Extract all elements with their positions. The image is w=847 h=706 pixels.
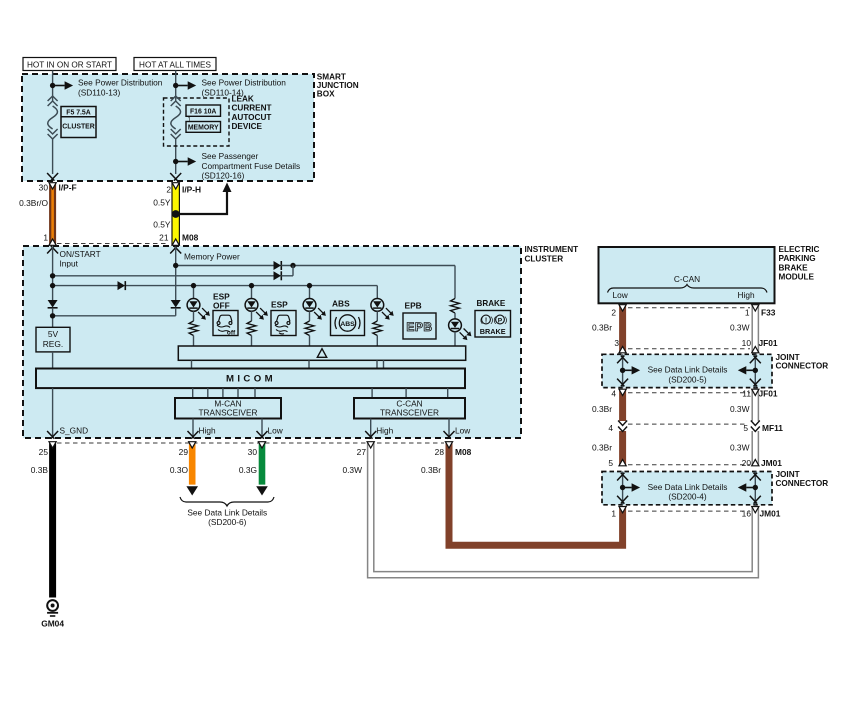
pin arrow out of cluster: [365, 431, 376, 439]
svg-text:CONNECTOR: CONNECTOR: [776, 479, 829, 488]
svg-text:High: High: [199, 426, 216, 436]
label MF11: [762, 423, 783, 433]
svg-text:See Power Distribution: See Power Distribution: [78, 77, 163, 87]
icon EPB: [403, 313, 436, 339]
svg-text:TRANSCEIVER: TRANSCEIVER: [380, 408, 439, 418]
label F33: [761, 308, 776, 318]
svg-text:30: 30: [39, 182, 49, 192]
svg-text:EPB: EPB: [406, 320, 432, 334]
svg-text:Low: Low: [613, 290, 629, 300]
wire resistor to LED BRAKE: [454, 313, 456, 319]
svg-text:30: 30: [248, 447, 258, 457]
joint box1 left arrow: [623, 366, 641, 374]
pin 1: [43, 232, 48, 242]
svg-text:OFF: OFF: [213, 301, 230, 311]
svg-text:BRAKE: BRAKE: [480, 327, 506, 336]
pin 20 JM01: [742, 458, 752, 468]
wire Memory vertical: [175, 247, 177, 301]
svg-text:0.5Y: 0.5Y: [153, 197, 171, 207]
resistor BRAKE: [451, 299, 460, 314]
label S_GND: [60, 426, 89, 436]
wires micom to c-can transceiver: [372, 388, 448, 398]
icon ABS: [331, 311, 365, 336]
label SMART JUNCTION BOX: [317, 72, 359, 98]
pin arrow out of cluster: [257, 431, 268, 439]
svg-text:Compartment Fuse Details: Compartment Fuse Details: [202, 161, 301, 171]
label JF01 lower: [759, 388, 778, 398]
svg-text:Memory Power: Memory Power: [184, 252, 240, 262]
wire 0.3O stub: [189, 442, 196, 485]
indicator LED ESP: [245, 299, 268, 320]
label ABS: [332, 299, 350, 309]
svg-text:1: 1: [611, 509, 616, 519]
joint box1 right arrow: [738, 366, 756, 374]
svg-text:1: 1: [43, 232, 48, 242]
wires bar to micom: [192, 360, 384, 368]
svg-text:5: 5: [743, 423, 748, 433]
node passenger fuse details: [173, 157, 196, 165]
wire 0.3Br/O: [49, 183, 56, 246]
connector dash JF01 bottom: [628, 392, 750, 394]
svg-text:CLUSTER: CLUSTER: [62, 124, 95, 131]
pin 5 JM01: [608, 458, 613, 468]
label 0.3Br cluster: [421, 465, 441, 475]
svg-text:ABS: ABS: [340, 321, 355, 328]
wire c-can high out: [370, 419, 372, 438]
resistor ABS: [305, 321, 314, 336]
svg-text:HOT IN ON OR START: HOT IN ON OR START: [27, 60, 112, 69]
label High epb: [738, 290, 755, 300]
diode Memory to regulator: [171, 300, 181, 308]
resistor EPB: [373, 321, 382, 336]
svg-text:PARKING: PARKING: [779, 254, 816, 263]
svg-text:HOT AT ALL TIMES: HOT AT ALL TIMES: [139, 60, 211, 69]
wire 0.3W epb to jf01: [752, 305, 759, 354]
diode on/start feed: [274, 271, 282, 280]
connector dash F33: [628, 307, 750, 309]
wire LED to resistor EPB: [376, 311, 378, 321]
label ESP OFF: [213, 291, 230, 310]
label High c-can: [376, 426, 393, 436]
arrow end green: [256, 486, 268, 495]
svg-text:See Data Link Details: See Data Link Details: [648, 365, 728, 375]
wire LED to resistor ESP: [251, 311, 253, 321]
svg-text:MODULE: MODULE: [779, 273, 815, 282]
svg-text:F16 10A: F16 10A: [190, 109, 216, 116]
svg-text:C-CAN: C-CAN: [674, 274, 700, 284]
svg-text:0.3Br: 0.3Br: [421, 465, 441, 475]
svg-text:0.3G: 0.3G: [239, 465, 257, 475]
joint box2 left arrow: [623, 483, 641, 491]
svg-text:(SD200-6): (SD200-6): [208, 517, 247, 527]
svg-text:(SD200-4): (SD200-4): [668, 492, 707, 502]
wire ON/START vertical: [52, 247, 54, 301]
svg-text:Low: Low: [455, 426, 471, 436]
wire right power feed: [175, 71, 177, 175]
svg-text:28: 28: [435, 447, 445, 457]
label see power distribution SD110-14: [202, 77, 287, 97]
joint box1 right wire: [750, 354, 761, 387]
wire 0.5Y: [172, 183, 179, 246]
label see data link details SD200-6: [187, 507, 267, 527]
svg-text:5: 5: [608, 458, 613, 468]
svg-text:BOX: BOX: [317, 89, 335, 98]
joint box2 left wire: [617, 472, 628, 505]
label LEAK CURRENT AUTOCUT DEVICE: [232, 95, 272, 132]
svg-text:JM01: JM01: [761, 458, 782, 468]
connector dash MF11: [628, 423, 745, 425]
brace data link: [180, 497, 274, 506]
svg-text:0.3W: 0.3W: [730, 443, 750, 453]
pin arrow out of cluster: [444, 431, 455, 439]
wire LED to resistor ESPOFF: [193, 311, 195, 321]
svg-text:DEVICE: DEVICE: [232, 122, 263, 131]
svg-text:4: 4: [608, 423, 613, 433]
svg-text:ESP: ESP: [271, 300, 288, 310]
svg-text:EPB: EPB: [405, 301, 422, 311]
svg-text:21: 21: [159, 232, 169, 242]
pin 2 I/P-H: [166, 173, 201, 194]
node power distribution right: [173, 81, 196, 89]
svg-text:P: P: [498, 317, 503, 324]
wire diode2 out: [281, 275, 293, 277]
wire c-can low out: [448, 419, 450, 438]
svg-text:F33: F33: [761, 308, 776, 318]
svg-text:MF11: MF11: [762, 423, 783, 433]
svg-text:Input: Input: [60, 259, 79, 269]
regulator 5V REG box: [36, 327, 70, 352]
svg-text:CONNECTOR: CONNECTOR: [776, 362, 829, 371]
label 0.3W seg3: [730, 443, 750, 453]
svg-text:See Data Link Details: See Data Link Details: [187, 507, 267, 517]
svg-text:TRANSCEIVER: TRANSCEIVER: [198, 408, 257, 418]
svg-text:(SD200-5): (SD200-5): [668, 375, 707, 385]
svg-text:20: 20: [742, 458, 752, 468]
label Low c-can: [455, 426, 471, 436]
pin 10 JF01: [742, 338, 752, 348]
wire LED BRAKE to bar: [454, 332, 456, 347]
svg-text:11: 11: [742, 388, 751, 398]
svg-text:ELECTRIC: ELECTRIC: [779, 245, 820, 254]
wires micom to m-can transceiver: [193, 388, 255, 398]
svg-text:0.3Br: 0.3Br: [592, 443, 612, 453]
label 0.3Br seg3: [592, 443, 612, 453]
electric parking brake module box: [599, 247, 775, 303]
pin 30 low: [248, 447, 258, 457]
icon ESP OFF: [213, 311, 238, 337]
svg-text:): ): [505, 315, 508, 325]
svg-text:25: 25: [39, 447, 49, 457]
indicator LED EPB: [371, 299, 394, 320]
svg-text:INSTRUMENT: INSTRUMENT: [525, 245, 579, 254]
pin arrow out of cluster: [47, 431, 58, 439]
wire m-can low out: [261, 419, 263, 438]
label 0.3W seg1: [730, 323, 750, 333]
joint connector box SD200-5: [602, 354, 772, 387]
wire resistor to bar EPB: [376, 336, 378, 347]
indicator LED BRAKE: [449, 319, 472, 340]
icon ESP: [271, 311, 296, 336]
svg-text:1: 1: [745, 308, 750, 318]
fuse box F16 10A MEMORY: [186, 105, 221, 132]
svg-text:off: off: [227, 329, 236, 336]
svg-text:3: 3: [614, 338, 619, 348]
joint box2 right wire: [750, 472, 761, 505]
connector dash JM01 top: [628, 464, 750, 466]
wire node to brake branch: [281, 263, 455, 299]
svg-text:0.3W: 0.3W: [342, 465, 362, 475]
pin 3 JF01: [614, 338, 619, 348]
label BRAKE: [477, 299, 506, 308]
node yellow junction with arrow to fuse details: [172, 183, 232, 218]
label ESP: [271, 300, 288, 310]
svg-text:16: 16: [742, 509, 752, 519]
svg-text:0.5Y: 0.5Y: [153, 220, 171, 230]
wire on/start to diode line2: [50, 273, 274, 278]
svg-text:S_GND: S_GND: [60, 426, 89, 436]
fuse F5 7.5A: [48, 96, 58, 139]
wire m-can high out: [192, 419, 194, 438]
wire lamp feed line3: [50, 283, 377, 288]
instrument cluster box: [23, 246, 521, 438]
wire S_GND: [52, 388, 54, 437]
svg-text:AUTOCUT: AUTOCUT: [232, 113, 272, 122]
label HOT IN ON OR START: [23, 58, 116, 71]
svg-text:I/P-F: I/P-F: [59, 182, 77, 192]
label 0.5Y upper: [153, 197, 171, 207]
pin 29: [179, 447, 189, 457]
pin 27: [357, 447, 367, 457]
MICOM bar: [36, 369, 465, 389]
diode lamp feed: [118, 281, 126, 290]
wire 0.3W jf01 to mf11: [752, 389, 759, 423]
leak current autocut device box: [164, 98, 230, 146]
pin 4 MF11: [608, 423, 613, 433]
label JOINT CONNECTOR 2: [776, 470, 829, 488]
svg-text:0.3Br/O: 0.3Br/O: [19, 198, 48, 208]
label HOT AT ALL TIMES: [134, 58, 216, 71]
smart junction box SJB: [22, 74, 314, 181]
arrow end orange: [186, 486, 198, 495]
label 0.3B: [31, 465, 49, 475]
label see passenger compartment fuse details: [202, 151, 301, 181]
wire 0.3W c-can high routing: [367, 442, 759, 578]
svg-text:2: 2: [611, 308, 616, 318]
svg-text:4: 4: [611, 388, 616, 398]
svg-text:0.3B: 0.3B: [31, 465, 49, 475]
icon BRAKE: [475, 311, 511, 338]
label see data link details SD200-5: [648, 365, 728, 385]
wire branch ESPOFF: [191, 283, 196, 298]
C-CAN transceiver box: [354, 398, 465, 419]
connector dash JF01 top: [628, 348, 750, 350]
wire 0.3B ground: [49, 442, 56, 598]
pin 1 F33: [745, 308, 750, 318]
svg-text:CLUSTER: CLUSTER: [525, 254, 564, 263]
pin arrow into cluster right: [170, 246, 181, 254]
label C-CAN in module: [674, 274, 700, 284]
label JF01 upper: [759, 338, 778, 348]
label INSTRUMENT CLUSTER: [525, 245, 579, 263]
pin 1 JM01: [611, 509, 616, 519]
svg-text:5V: 5V: [48, 329, 59, 339]
pin 30 I/P-F: [39, 173, 77, 192]
svg-text:27: 27: [357, 447, 367, 457]
svg-text:Low: Low: [268, 426, 284, 436]
diode ON/START to regulator: [48, 300, 58, 308]
label see power distribution SD110-13: [78, 77, 163, 97]
inline connector MF11 right: [751, 421, 760, 467]
connector dash JM01 bottom: [628, 510, 750, 512]
fuse box F5 7.5A CLUSTER: [61, 107, 96, 138]
svg-text:M08: M08: [182, 232, 199, 242]
pin 2 F33: [611, 308, 616, 318]
svg-text:BRAKE: BRAKE: [477, 299, 506, 308]
label 0.3W seg2: [730, 404, 750, 414]
label 0.3O: [170, 465, 189, 475]
svg-text:ABS: ABS: [332, 299, 350, 309]
svg-text:CURRENT: CURRENT: [232, 104, 272, 113]
brace C-CAN: [608, 285, 768, 293]
label 0.3W cluster: [342, 465, 362, 475]
wire memory to diode line1: [173, 263, 274, 268]
pin 11 JF01: [742, 388, 751, 398]
svg-text:MICOM: MICOM: [226, 374, 276, 385]
svg-text:I/P-H: I/P-H: [182, 184, 201, 194]
wire 0.3Br jf01 to mf11: [619, 389, 626, 423]
svg-text:10: 10: [742, 338, 752, 348]
joint connector box SD200-4: [602, 472, 772, 505]
wire resistor to bar ABS: [309, 336, 311, 347]
wire 0.3Br epb to jf01: [619, 305, 626, 354]
svg-text:See Passenger: See Passenger: [202, 151, 259, 161]
label JM01 lower: [760, 509, 781, 519]
wire resistor to bar ESPOFF: [193, 336, 195, 347]
connector dash M08 bottom: [57, 442, 444, 444]
lamp driver bar with warning triangle: [178, 346, 465, 360]
inline connector MF11 left: [618, 421, 627, 467]
M-CAN transceiver box: [175, 398, 281, 419]
label 0.3Br/O: [19, 198, 48, 208]
connector dash M08 top: [57, 243, 168, 245]
indicator LED ESPOFF: [187, 299, 210, 320]
label Memory Power: [184, 252, 240, 262]
label EPB: [405, 301, 422, 311]
resistor ESPOFF: [189, 321, 198, 336]
svg-text:(SD120-16): (SD120-16): [202, 171, 245, 181]
label 0.3Br seg2: [592, 404, 612, 414]
pin arrow into cluster left: [47, 246, 58, 254]
svg-text:MEMORY: MEMORY: [188, 125, 219, 132]
label ELECTRIC PARKING BRAKE MODULE: [779, 245, 820, 282]
wire left power feed: [52, 71, 54, 175]
svg-text:29: 29: [179, 447, 189, 457]
svg-text:F5 7.5A: F5 7.5A: [66, 109, 91, 116]
label see data link details SD200-4: [648, 482, 728, 502]
wire regulator feed join: [50, 308, 176, 328]
wire branch EPB: [376, 286, 378, 299]
svg-text:!: !: [485, 317, 487, 324]
resistor ESP: [247, 321, 256, 336]
svg-text:BRAKE: BRAKE: [779, 263, 809, 272]
svg-text:High: High: [738, 290, 755, 300]
svg-text:JF01: JF01: [759, 338, 778, 348]
indicator LED ABS: [303, 299, 326, 320]
pin 16 JM01: [742, 509, 752, 519]
wire 0.3Br c-can low routing: [445, 442, 626, 546]
label 0.3Br seg1: [592, 323, 612, 333]
svg-text:0.3Br: 0.3Br: [592, 404, 612, 414]
svg-text:0.3Br: 0.3Br: [592, 323, 612, 333]
svg-text:High: High: [376, 426, 393, 436]
pin 28 M08: [435, 447, 472, 457]
label 0.3G: [239, 465, 257, 475]
joint box1 left wire: [617, 354, 628, 387]
svg-text:See Data Link Details: See Data Link Details: [648, 482, 728, 492]
svg-text:See Power Distribution: See Power Distribution: [202, 77, 287, 87]
svg-text:REG.: REG.: [43, 339, 63, 349]
svg-text:JM01: JM01: [760, 509, 781, 519]
pin 5 MF11: [743, 423, 748, 433]
svg-text:0.3W: 0.3W: [730, 323, 750, 333]
label High m-can: [199, 426, 216, 436]
pin 21 M08: [159, 232, 198, 242]
label Low epb: [613, 290, 629, 300]
fuse F16 10A: [171, 96, 181, 139]
svg-text:M08: M08: [455, 447, 472, 457]
label JM01 upper: [761, 458, 782, 468]
svg-text:JF01: JF01: [759, 388, 778, 398]
wire 0.3G stub: [258, 442, 265, 485]
svg-text:LEAK: LEAK: [232, 95, 254, 104]
pin 4 JF01: [611, 388, 616, 398]
svg-text:0.3W: 0.3W: [730, 404, 750, 414]
wire regulator to micom: [52, 352, 54, 369]
svg-text:GM04: GM04: [41, 619, 64, 629]
diode memory feed: [274, 261, 282, 270]
wire resistor to bar ESP: [251, 336, 253, 347]
pin arrow out of cluster: [188, 431, 199, 439]
label Low m-can: [268, 426, 284, 436]
svg-text:2: 2: [166, 184, 171, 194]
node power distribution left: [50, 81, 73, 89]
label JOINT CONNECTOR 1: [776, 353, 829, 371]
label 0.5Y lower: [153, 220, 171, 230]
joint box2 right arrow: [738, 483, 756, 491]
svg-text:ON/START: ON/START: [60, 249, 101, 259]
wire branch ESP: [249, 283, 254, 298]
ground symbol GM04: [47, 600, 58, 616]
label GM04: [41, 619, 64, 629]
wire branch ABS: [307, 283, 312, 298]
svg-text:(SD110-13): (SD110-13): [78, 87, 121, 97]
pin 25: [39, 447, 49, 457]
svg-text:0.3O: 0.3O: [170, 465, 189, 475]
label ON/START Input: [60, 249, 101, 269]
wire LED to resistor ABS: [309, 311, 311, 321]
